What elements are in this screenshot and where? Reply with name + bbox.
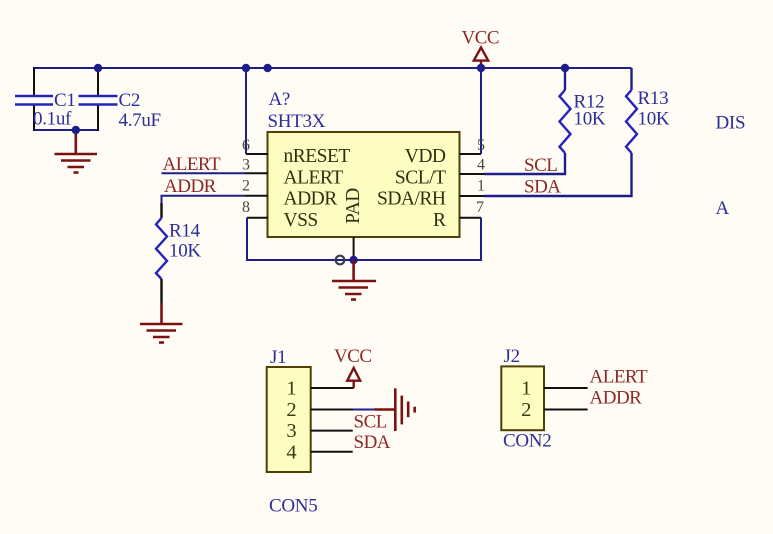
svg-text:VCC: VCC	[334, 346, 372, 367]
pin 8 stub	[247, 217, 268, 219]
svg-text:SCL/T: SCL/T	[395, 167, 446, 188]
svg-text:3: 3	[286, 420, 296, 442]
svg-text:SDA/RH: SDA/RH	[377, 189, 446, 210]
svg-text:VDD: VDD	[405, 146, 446, 167]
pin 3 stub	[245, 172, 268, 174]
capacitor C2	[79, 67, 118, 131]
capacitor C1	[15, 67, 53, 131]
svg-text:ADDR: ADDR	[164, 176, 217, 197]
pin 9 no-connect circle	[336, 256, 345, 265]
ground under R14	[140, 303, 183, 343]
svg-text:CON2: CON2	[503, 431, 551, 452]
svg-text:C2: C2	[119, 90, 141, 111]
svg-text:CON5: CON5	[269, 496, 317, 517]
J1 pin 3 stub	[311, 430, 353, 432]
svg-text:10K: 10K	[169, 241, 201, 262]
svg-text:J2: J2	[504, 346, 520, 367]
svg-text:SCL: SCL	[354, 412, 387, 433]
node: junction R12 top	[561, 64, 569, 72]
svg-text:1: 1	[477, 178, 485, 195]
svg-text:SDA: SDA	[524, 176, 561, 197]
svg-text:2: 2	[242, 178, 250, 195]
svg-text:4: 4	[477, 157, 485, 174]
svg-text:VCC: VCC	[462, 28, 500, 49]
svg-text:SDA: SDA	[354, 432, 391, 453]
svg-text:7: 7	[476, 199, 484, 216]
power symbol VCC (top)	[474, 48, 488, 69]
wire: drop to pin 6	[245, 68, 247, 154]
svg-text:PAD: PAD	[343, 188, 364, 224]
svg-text:R14: R14	[169, 221, 201, 242]
svg-text:VSS: VSS	[284, 210, 318, 231]
svg-text:6: 6	[242, 137, 250, 154]
J2 pin 2 stub	[544, 409, 588, 411]
connector J1 body	[267, 367, 311, 472]
svg-text:DIS: DIS	[716, 113, 746, 134]
pin 6 stub	[246, 153, 268, 155]
svg-text:2: 2	[521, 399, 531, 421]
wire: ALERT net	[162, 172, 246, 174]
svg-text:2: 2	[286, 399, 296, 421]
wire: top VCC rail	[34, 67, 632, 69]
svg-text:10K: 10K	[638, 109, 670, 130]
ground under IC PAD	[332, 260, 376, 300]
svg-text:ADDR: ADDR	[284, 189, 338, 210]
earth ground symbol (J1 pin2)	[375, 388, 415, 431]
svg-text:A: A	[716, 198, 730, 219]
pin 1 stub	[460, 195, 485, 197]
svg-text:nRESET: nRESET	[284, 146, 351, 167]
resistor R13	[484, 68, 637, 196]
pin 2 stub	[245, 195, 268, 197]
svg-text:R: R	[433, 210, 446, 231]
wire: VSS / ground loop	[247, 218, 481, 260]
svg-text:10K: 10K	[574, 109, 606, 130]
svg-text:SCL: SCL	[524, 155, 557, 176]
pin 7 stub	[460, 217, 482, 219]
resistor R14	[156, 203, 167, 303]
node: junction pin6 drop	[242, 64, 250, 72]
svg-text:ADDR: ADDR	[590, 387, 643, 408]
svg-text:SHT3X: SHT3X	[268, 111, 326, 132]
ground under C1/C2	[55, 130, 98, 173]
node: junction stray	[263, 64, 271, 72]
power symbol VCC (J1)	[347, 368, 360, 388]
svg-text:0.1uf: 0.1uf	[33, 109, 72, 130]
node: junction VCC	[477, 64, 485, 72]
resistor R12	[484, 68, 571, 174]
svg-text:R13: R13	[638, 88, 669, 109]
svg-text:8: 8	[242, 199, 250, 216]
J1 pin 4 stub	[311, 451, 353, 453]
svg-text:4: 4	[286, 441, 296, 463]
IC U1 SHT3X body	[268, 132, 460, 237]
node: junction C2-top	[94, 64, 102, 72]
J2 pin 1 stub	[544, 387, 588, 389]
svg-text:ALERT: ALERT	[284, 167, 344, 188]
node: junction C-rail gnd	[72, 126, 80, 134]
svg-text:5: 5	[477, 137, 485, 154]
wire: drop to pin 5 (VCC)	[480, 68, 482, 154]
svg-text:J1: J1	[270, 347, 286, 368]
svg-text:ALERT: ALERT	[590, 367, 648, 388]
pin 5 stub	[460, 153, 482, 155]
svg-text:4.7uF: 4.7uF	[119, 110, 161, 131]
J1 pin 1 stub	[311, 387, 354, 389]
svg-text:1: 1	[286, 378, 296, 400]
wire: ADDR net	[162, 196, 246, 204]
svg-text:1: 1	[521, 378, 531, 400]
svg-text:3: 3	[242, 157, 250, 174]
node: junction PAD-gnd	[349, 256, 357, 264]
connector J2 body	[501, 366, 544, 430]
J1 pin 2 stub + wire	[311, 409, 375, 411]
svg-text:ALERT: ALERT	[163, 154, 221, 175]
pin 4 stub	[460, 173, 485, 175]
wire: bottom rail between C1 and C2	[33, 129, 98, 131]
pin 9 PAD stub	[353, 237, 355, 260]
svg-text:A?: A?	[269, 89, 291, 110]
